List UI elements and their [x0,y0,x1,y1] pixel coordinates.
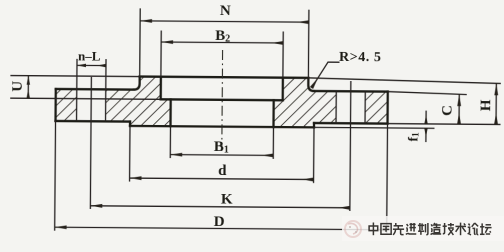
H top extension (hub top) [308,78,501,84]
hatching: right outer ring section [365,91,388,123]
N extension right [307,10,310,78]
plate bottom left [56,120,130,123]
d extension right [313,127,315,183]
centerline (dash-dot) [221,50,224,151]
bolt hole left walls [76,59,78,121]
H dimension line [495,83,497,124]
plate bottom right [314,122,387,125]
hatching: left outer ring section [56,89,77,121]
svg-text:R>4. 5: R>4. 5 [339,50,382,65]
B1 extension right [272,127,274,159]
raised face bottom [130,126,314,127]
D extension right [386,124,389,234]
socket wall right [282,78,284,101]
C top extension (plate top) [388,92,467,95]
B1 extension left [169,126,171,158]
plate left edge [54,89,57,121]
svg-text:N: N [220,3,231,19]
socket wall left [160,77,162,100]
raised face step right [313,123,315,127]
B1 dimension line [170,154,273,157]
H / C / f bottom extension (plate bottom) [388,123,501,126]
watermark logo [345,221,361,237]
N dimension line [140,21,309,22]
flange profile (thick lines) [56,76,388,128]
U dimension line [27,76,29,99]
raised face step left [129,122,131,126]
hub right wall + fillet R [308,78,314,91]
d extension left [129,126,131,182]
B2 dimension line [161,41,283,44]
svg-text:n–L: n–L [78,48,101,63]
svg-text:D: D [214,214,225,230]
N extension left [139,8,142,76]
hatching: right inner section [273,78,336,128]
socket floor [161,98,283,101]
C dimension line [458,94,460,124]
bolt hole centerline right (K extension) [350,81,351,211]
bore wall left B1 [169,99,172,126]
plate right edge [386,92,389,124]
bore wall right B1 [272,100,275,127]
svg-text:K: K [221,191,233,207]
bolt hole right walls [335,91,337,123]
hatching: left inner section [105,76,170,126]
d dimension line [130,178,314,179]
plate top left [56,88,134,91]
watermark text (fake CJK glyphs) [369,223,491,236]
plate top right (continues as C extension) [314,90,388,93]
U extension top (from hub top) [10,76,139,77]
D dimension line [55,227,387,230]
svg-text:d: d [218,163,227,179]
B2 extension right [282,31,284,77]
f dimension arrows (outside) [425,111,427,124]
B2 extension left [160,31,162,77]
n-L dimension line [77,64,106,66]
D extension left [54,121,57,231]
R leader [312,62,340,88]
watermark band [342,216,504,241]
bolt hole centerline left (K extension) [90,77,91,209]
svg-text:C: C [440,105,456,116]
K dimension line [90,206,349,208]
hub left wall + fillet [134,77,140,90]
svg-text:U: U [10,81,26,92]
hub top face [140,77,309,78]
U extension bottom (from socket floor) [10,98,160,99]
svg-text:H: H [478,99,494,111]
f bottom extension (raised face bottom) [314,126,434,129]
